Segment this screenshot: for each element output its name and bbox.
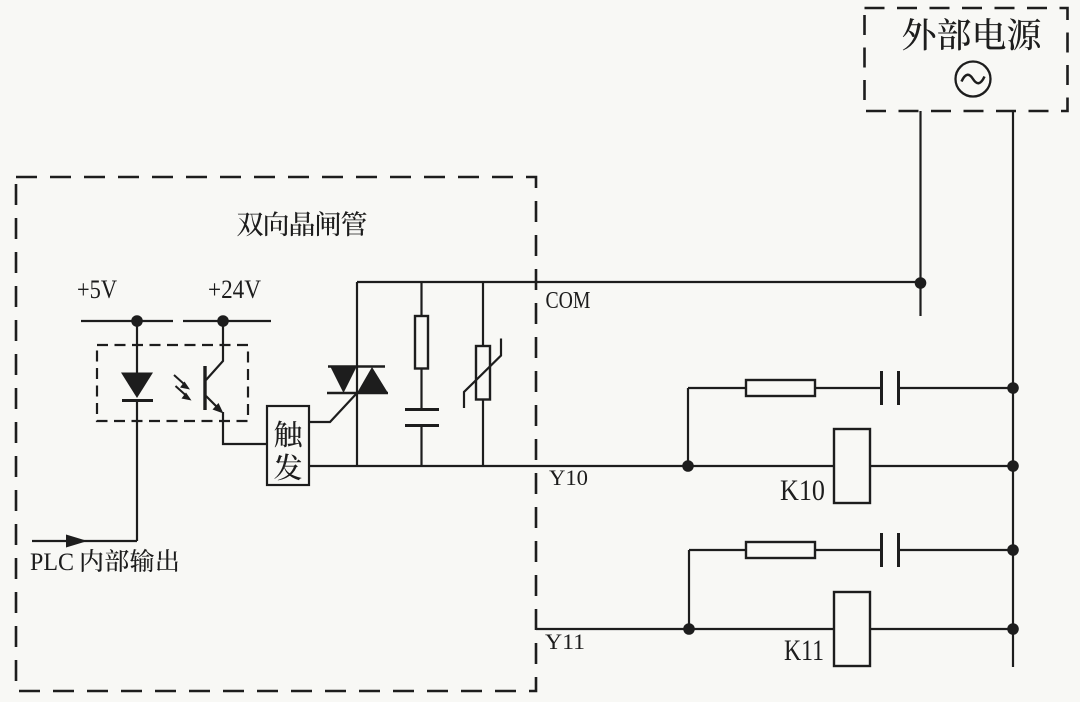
phototransistor [205, 321, 224, 414]
svg-text:PLC: PLC [30, 549, 74, 576]
optocoupler dashed box [97, 345, 248, 421]
+24V supply rail [183, 320, 271, 322]
wire: COM line [357, 281, 920, 283]
snubber resistor R (Y11) [689, 542, 880, 558]
trigger unit box 触发 [267, 406, 309, 485]
label 发 [274, 453, 301, 480]
node: +24V rail junction [217, 315, 229, 327]
node: Y11 to right bus [1007, 623, 1019, 635]
wire: Y10 line [309, 465, 1013, 467]
LED (optocoupler input diode) [121, 321, 153, 401]
snubber resistor R (Y10) [688, 380, 880, 396]
label 触 [275, 421, 302, 448]
node: Y10 branch junction [682, 460, 694, 472]
wire: Y10 snubber branch riser [687, 388, 689, 466]
wire: external power right lead (right bus) [1012, 111, 1014, 667]
relay coil K10 [834, 429, 870, 503]
light coupling arrows [174, 375, 192, 401]
external power supply dashed box [865, 8, 1068, 111]
svg-text:Y10: Y10 [549, 465, 588, 490]
snubber capacitor (horizontal plates) [405, 410, 439, 467]
svg-text:+24V: +24V [208, 275, 261, 304]
wire: external power left lead down to COM [919, 111, 921, 316]
+5V supply rail [81, 320, 173, 322]
snubber capacitor C (Y11) [882, 533, 1014, 567]
svg-text:COM: COM [546, 288, 591, 314]
label 双向晶闸管 [237, 211, 366, 236]
node: COM junction on power lead [915, 277, 927, 289]
svg-text:Y11: Y11 [545, 629, 585, 654]
PLC output module dashed enclosure [16, 177, 536, 691]
svg-text:K10: K10 [780, 474, 825, 507]
wire: triac gate to trigger box [309, 393, 357, 422]
AC source symbol [956, 62, 991, 97]
PLC internal output arrow [32, 535, 137, 548]
relay coil K11 [834, 592, 870, 666]
wire: LED cathode down to PLC output [136, 400, 138, 541]
snubber resistor (vertical) [415, 282, 428, 410]
node: Y11 branch junction [683, 623, 695, 635]
svg-text:+5V: +5V [77, 275, 117, 304]
snubber capacitor C (Y10) [882, 371, 1014, 405]
wire: Y11 line [536, 628, 1013, 630]
label 外部电源 [903, 18, 1041, 50]
wire: triac vertical (COM to Y10) [356, 282, 358, 466]
node: Y11 snubber to right bus [1007, 544, 1019, 556]
wire: Y11 snubber branch riser [688, 550, 690, 629]
node: Y10 snubber to right bus [1007, 382, 1019, 394]
node: Y10 to right bus [1007, 460, 1019, 472]
triac [327, 367, 388, 394]
svg-text:K11: K11 [784, 634, 824, 667]
varistor [464, 282, 501, 466]
node: +5V rail junction [131, 315, 143, 327]
wire: emitter to trigger box [223, 412, 267, 444]
